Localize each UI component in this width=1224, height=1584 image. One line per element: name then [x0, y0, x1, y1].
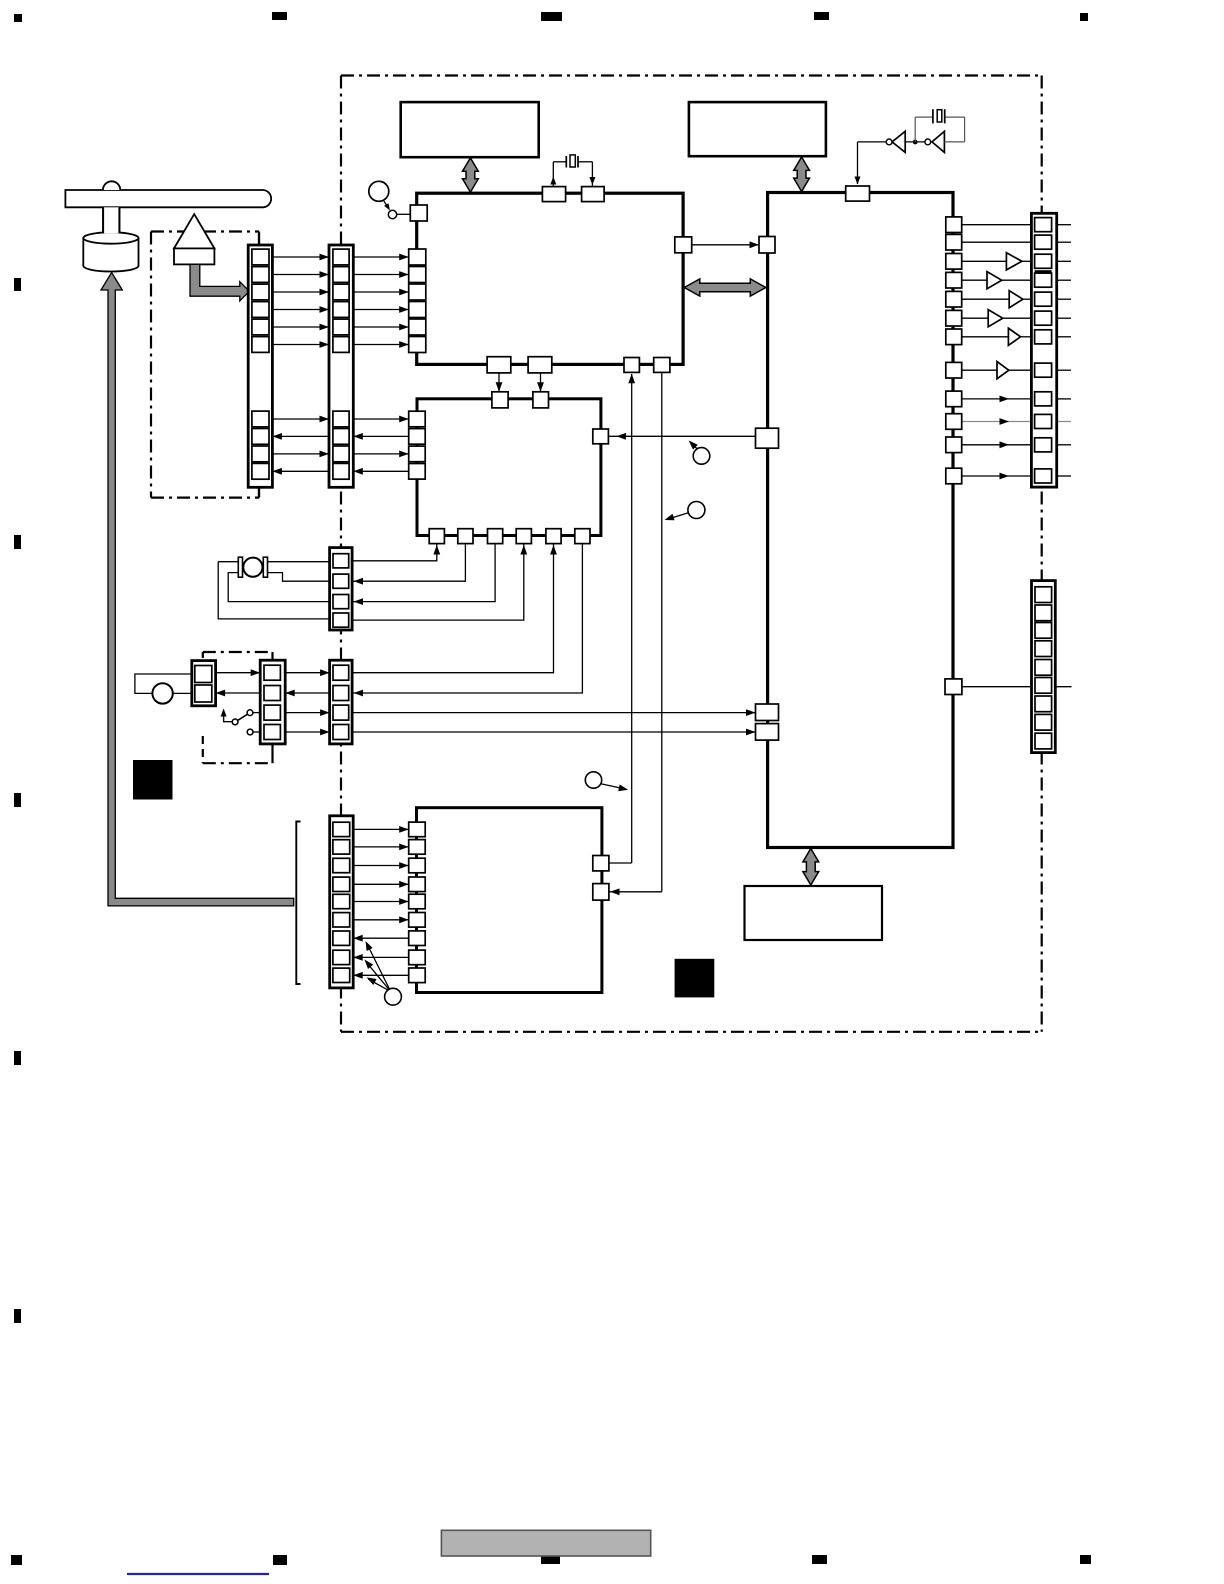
buffer amp row4 — [987, 272, 1002, 289]
wire: CN-B sq1 to U3 pin5 — [349, 544, 554, 673]
U2 right pins — [946, 217, 962, 233]
motor M1 (capstan) — [238, 557, 242, 577]
ground pad GP1 — [133, 760, 173, 800]
connector CN-F — [1032, 581, 1056, 753]
wire: motor M1 loop to CN-A — [218, 561, 238, 563]
U1 reset pin — [410, 205, 427, 221]
connector CN-A — [330, 548, 353, 630]
U3 top pins — [492, 392, 508, 408]
wire: CN-C to CN-B row3 — [285, 712, 329, 714]
antenna motor M2 — [152, 683, 172, 703]
wire: U1 to U4 data in (vertical) — [661, 372, 663, 891]
wire: antenna feed (into CN-D loop) — [135, 674, 192, 693]
crystal X1 — [552, 162, 554, 187]
block B1 (display unit) — [401, 102, 539, 157]
oscillator: inverter V1 — [858, 141, 887, 143]
wire: U2 pin row5 to CN-G — [962, 298, 1010, 300]
IC U3 (servo DSP) — [417, 399, 601, 536]
wire: CN-D to CN-C row1 — [216, 672, 261, 674]
reset circuit K1 — [369, 181, 389, 201]
boundary stub above CN-H — [258, 232, 260, 246]
footer button (gray) — [441, 1530, 650, 1556]
buffer amp row5 — [1009, 291, 1023, 308]
oscillator: inverter V2 — [905, 141, 925, 143]
bus arrow B2-U2 (gray) — [794, 157, 810, 192]
buffer amp row3 — [1006, 253, 1022, 270]
antenna base cylinder — [83, 238, 138, 271]
wire: U2 pin row6 to CN-G — [962, 317, 989, 319]
U3 bottom pins — [429, 529, 444, 544]
boundary stub below CN-H — [258, 487, 260, 497]
wire: CN-B sq3 to U2 (long) — [352, 712, 755, 714]
wire: U2 pin row8 to CN-G — [962, 369, 997, 371]
IC U2 (display driver) — [768, 193, 953, 848]
IC U4 (motor driver) — [417, 808, 602, 993]
wire: U3 right pin to U2 left pin — [608, 435, 755, 437]
connector CN-C — [260, 660, 285, 744]
wire: U3 pin2 to CN-A sq2 — [354, 544, 466, 582]
wire: CN-I to U1 left pins (upper) — [353, 256, 408, 258]
wire: U2 pin row1 to CN-G — [962, 224, 1032, 226]
wire: CN-C to CN-B row4 — [285, 731, 329, 733]
wire: U2 pin row3 to CN-G — [962, 260, 1007, 262]
U3 left pins — [409, 411, 426, 427]
U1 bottom pins — [487, 357, 511, 373]
wire: U2 lower pin to CN-F — [962, 686, 1072, 688]
connector CN-G — [1031, 213, 1056, 487]
wire: U3 pin1 to CN-A sq1 — [349, 544, 437, 561]
block B2 (key unit) — [689, 102, 826, 156]
connector CN-H — [248, 245, 272, 487]
U4 right pins — [593, 856, 609, 871]
wire: U2 pin row9 to CN-G — [962, 398, 1032, 400]
U3 right pin — [593, 429, 609, 444]
wire: U1 pin to U3 pin (right) — [540, 373, 542, 392]
wire: CN-H to CN-I rows (upper) — [272, 256, 329, 258]
connector CN-D — [192, 661, 216, 706]
test point TP1 — [693, 448, 710, 465]
connector CN-I — [329, 245, 353, 487]
connector CN-G key mark — [1035, 270, 1052, 273]
wire: U3 pin3 to CN-A sq3 — [354, 544, 496, 602]
RF signal path (gray) — [101, 273, 294, 906]
buffer amp row8 — [997, 362, 1009, 379]
wire: switch to CN-C row4 — [253, 731, 260, 733]
bus arrow U1-U2 (gray) — [684, 279, 766, 296]
wire: CN-A sq4 to U3 pin4 — [349, 544, 524, 621]
crystal X2 — [932, 109, 934, 123]
block B3 (memory unit) — [745, 886, 883, 940]
U2 top pin (osc) — [846, 186, 870, 201]
speaker SP1 — [174, 214, 214, 248]
IC U1 (system microcontroller) — [417, 193, 683, 364]
wire: U3 pin6 to CN-B sq2 — [354, 544, 583, 693]
wire: U2 pin row2 to CN-G — [962, 241, 1032, 243]
speaker signal arrow (gray) — [190, 264, 249, 301]
buffer amp row6 — [988, 310, 1003, 327]
oscillator junction — [913, 140, 918, 145]
bus arrow B1-U1 (gray) — [463, 158, 479, 192]
wire: CN-B sq4 to U2 (long) — [352, 731, 755, 733]
connector CN-E — [330, 816, 354, 988]
wire: U4 data out to U1 (vertical) — [631, 374, 633, 863]
U4 left pins — [409, 822, 426, 837]
test point TP3 — [585, 772, 601, 788]
wire: CN-B to CN-C row2 — [285, 692, 329, 694]
test point TP2 — [688, 502, 705, 519]
wire: U2 pin row12 to CN-G — [962, 475, 1032, 477]
wire: U2 pin row4 to CN-G — [962, 279, 987, 281]
mechanism boundary (dash-dot) around speaker — [151, 230, 259, 232]
cable bracket at CN-E — [296, 822, 300, 985]
footer link underline — [127, 1573, 269, 1575]
wire: U2 pin row7 to CN-G — [962, 336, 1009, 338]
ground pad GP2 — [675, 959, 715, 998]
tuner pack boundary (dash-dot) around CN-D — [203, 651, 273, 653]
wire: switch to CN-C row3 — [253, 712, 260, 714]
U1 right pin — [675, 237, 692, 253]
U1 left pins — [409, 249, 426, 265]
antenna ANT1 — [65, 190, 271, 207]
unit boundary frame (dash-dot) — [341, 74, 1042, 76]
switch SW1 — [224, 715, 232, 722]
wire: CN-C to CN-D row2 — [216, 692, 261, 694]
wire: U1 pin to U3 pin (left) — [498, 373, 500, 392]
bus arrow U2-B3 (gray) — [803, 849, 819, 886]
crystal X2 feedback loop — [914, 117, 916, 142]
wire: CN-H/CN-I/U3 rows (lower) — [272, 418, 329, 420]
wire: U2 pin row10 to CN-G — [962, 421, 1032, 423]
buffer amp row7 — [1008, 328, 1020, 345]
wire: CN-C to CN-B row1 — [285, 672, 329, 674]
connector CN-B — [330, 660, 353, 744]
U2 left pins — [759, 237, 775, 254]
wire: CN-E to U4 rows — [353, 828, 409, 830]
wire: U2 pin row11 to CN-G — [962, 444, 1032, 446]
wire: U1 right pin to U2 left pin — [692, 244, 759, 246]
U1 top pins (crystal) — [542, 187, 565, 202]
test point TP4 (fan-out to CN-E) — [385, 988, 402, 1005]
